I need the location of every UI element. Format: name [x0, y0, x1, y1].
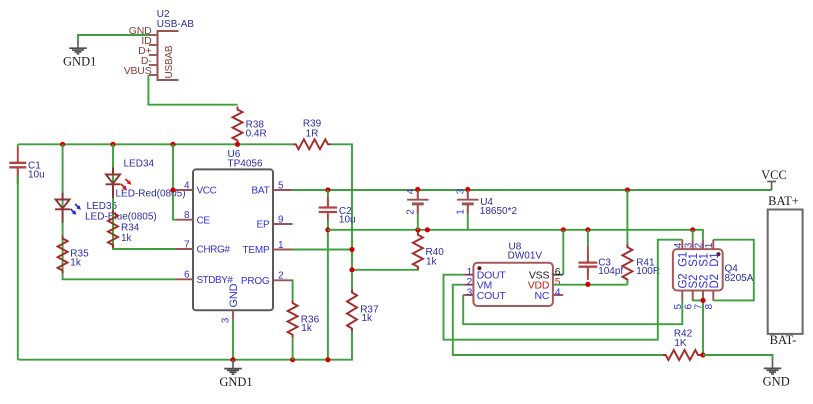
pin 6 STDBY# of U6 [176, 270, 233, 286]
IC U8 DW01V body [473, 263, 553, 306]
svg-text:GND1: GND1 [219, 375, 252, 389]
junction BAT- at C3 [585, 227, 590, 232]
junction at C2 top [325, 187, 330, 192]
junction at LED34 branch [110, 142, 115, 147]
svg-text:2: 2 [278, 271, 284, 282]
svg-text:1R: 1R [306, 129, 319, 140]
junction BAT- at R40/U4 pin2 [415, 227, 420, 232]
junction at U6 VCC pin [170, 187, 175, 192]
junction R40 line at riser [349, 267, 354, 272]
junction BAT- extra [425, 227, 430, 232]
LED LED34 [106, 159, 186, 200]
wire rail to VCC and CE pins [173, 144, 176, 219]
resistor R36 [288, 300, 320, 338]
pin 3 GND of U6 [221, 283, 241, 323]
pin 3 S1 of Q4 [683, 240, 700, 267]
svg-text:3: 3 [221, 317, 232, 323]
junction C2 at BAT- line [325, 227, 330, 232]
wire R42 to GND symbol [703, 355, 773, 360]
pin 4 NC of U8 (unconnected) [535, 287, 564, 302]
junction R42 right [700, 352, 705, 357]
junction BAT- at Q4 pin3 [690, 227, 695, 232]
Q4 reference label [725, 264, 754, 285]
svg-text:TP4056: TP4056 [228, 158, 263, 169]
resistor R42 [663, 329, 701, 360]
svg-text:GND1: GND1 [63, 55, 96, 69]
svg-text:1K: 1K [674, 338, 687, 349]
svg-text:EP: EP [257, 220, 270, 231]
pin VBUS of U2 [124, 65, 158, 77]
svg-text:COUT: COUT [477, 290, 507, 302]
pin 3 COUT of U8 [463, 287, 506, 302]
resistor R38 [233, 107, 267, 144]
junction Q4 S2 [700, 298, 705, 303]
pin 5 G2 of Q4 [673, 274, 690, 310]
svg-text:NC: NC [535, 290, 550, 302]
svg-text:3: 3 [455, 188, 466, 194]
wire R36 bottom to rail [292, 338, 294, 360]
svg-text:1k: 1k [426, 257, 438, 268]
resistor R40 [413, 232, 444, 270]
wire COUT to Q4 G2 [463, 295, 682, 324]
wire BAT- net [328, 230, 703, 240]
svg-text:PROG: PROG [241, 276, 270, 287]
svg-text:8205A: 8205A [725, 273, 754, 284]
transistor Q4 8205A body [673, 249, 723, 290]
svg-text:0.4R: 0.4R [246, 129, 267, 140]
svg-text:1k: 1k [301, 323, 313, 334]
LED LED35 [55, 193, 157, 224]
svg-text:USBAB: USBAB [164, 45, 175, 78]
junction at LED35 branch [60, 142, 65, 147]
capacitor C2 [319, 190, 356, 226]
pin 5 VDD of U8 [528, 276, 561, 291]
junction TEMP riser [349, 247, 354, 252]
wire VDD line [553, 284, 628, 286]
svg-text:4: 4 [405, 188, 416, 194]
junction at U6 VCC branch [170, 142, 175, 147]
wire U4 cell B pin1 to BAT- line [467, 214, 469, 230]
resistor R35 [58, 236, 89, 274]
svg-text:8: 8 [184, 210, 190, 221]
svg-text:10u: 10u [339, 215, 356, 226]
pin 4 VCC of U6 [176, 180, 217, 196]
wire R39 to TEMP riser [331, 144, 352, 289]
U8 reference label [508, 241, 543, 261]
wire VCC top rail [18, 143, 293, 145]
svg-text:5: 5 [278, 180, 284, 191]
svg-text:TEMP: TEMP [243, 245, 271, 256]
ground GND (right) [763, 359, 790, 388]
resistor R34 [108, 210, 140, 248]
wire BAT net (U6 BAT pin to VCC flag) [293, 189, 772, 191]
svg-text:BAT-: BAT- [770, 333, 797, 347]
svg-text:2: 2 [405, 209, 416, 215]
svg-text:GND: GND [228, 283, 240, 307]
battery terminal block BAT+/BAT- [768, 194, 803, 347]
svg-text:CE: CE [197, 215, 211, 226]
wire U4 cell A pin2 to BAT- line [417, 214, 419, 230]
svg-text:7: 7 [184, 239, 190, 250]
svg-text:9: 9 [278, 214, 284, 225]
U2 reference label [157, 9, 195, 30]
resistor R41 [622, 190, 660, 285]
junction VDD at C3 bottom [585, 282, 590, 287]
svg-text:6: 6 [184, 270, 190, 281]
wire VM to R42 [453, 285, 663, 355]
wire C1 to bottom rail [17, 175, 19, 359]
wire GND1 to USB GND pin [78, 35, 149, 43]
capacitor C3 [579, 230, 624, 280]
svg-text:BAT+: BAT+ [768, 194, 799, 208]
svg-text:4: 4 [673, 242, 684, 248]
pin 2 S1 of Q4 [694, 240, 711, 267]
svg-text:100R: 100R [636, 266, 660, 277]
junction at R38 bottom [235, 142, 240, 147]
svg-text:D1: D1 [709, 252, 721, 266]
resistor R37 [347, 290, 379, 332]
pin 4 G1 of Q4 [673, 240, 690, 267]
pin 8 CE of U6 [176, 210, 210, 226]
wire U6 GND pin to bottom rail [232, 320, 234, 360]
pin 8 D2 of Q4 [704, 274, 721, 309]
svg-text:D2: D2 [709, 274, 721, 288]
svg-text:4: 4 [555, 287, 561, 299]
pin D+ of U2 [138, 45, 157, 57]
svg-text:1k: 1k [70, 257, 82, 268]
svg-text:GND: GND [763, 374, 790, 388]
wire LED34 branch [113, 144, 176, 249]
pin 1 DOUT of U8 [463, 266, 506, 281]
svg-text:5: 5 [673, 304, 684, 310]
junction at U4 pin3 [465, 187, 470, 192]
wire TEMP pin to riser [293, 249, 353, 251]
pin 2 VM of U8 [463, 276, 492, 291]
junction rail at R36 [290, 357, 295, 362]
svg-text:VCC: VCC [197, 186, 217, 197]
ground GND1 (upper, at USB) [63, 42, 96, 69]
capacitor C1 [9, 144, 44, 184]
svg-text:R34: R34 [121, 223, 140, 234]
svg-text:DW01V: DW01V [508, 251, 543, 262]
pin 7 S2 of Q4 [694, 275, 711, 310]
resistor R39 [293, 119, 331, 150]
svg-text:1k: 1k [121, 233, 133, 244]
svg-text:1: 1 [278, 240, 284, 251]
pin 6 VSS of U8 [529, 266, 563, 281]
svg-text:8: 8 [704, 304, 715, 310]
junction rail at U6 GND [230, 357, 235, 362]
junction at U4 pin4 [415, 187, 420, 192]
svg-text:LED34: LED34 [124, 159, 155, 170]
pin 1 D1 of Q4 [704, 240, 721, 267]
wire VBUS to R38 [148, 75, 237, 105]
IC U6 TP4056 body [193, 169, 273, 310]
battery U4 cell A pins 4/2 [405, 188, 428, 215]
svg-text:LED-Blue(0805): LED-Blue(0805) [85, 212, 157, 223]
wire C2 bottom to BAT- line and bottom rail [327, 220, 329, 360]
svg-text:USB-AB: USB-AB [157, 19, 195, 30]
pin 7 CHRG# of U6 [176, 239, 230, 255]
battery U4 cell B pins 3/1 [455, 188, 478, 215]
pin D- of U2 [141, 55, 158, 67]
wire R37 bottom to rail [18, 332, 352, 360]
svg-text:4: 4 [184, 180, 190, 191]
svg-text:104pf: 104pf [598, 266, 623, 277]
pin 1 TEMP of U6 [243, 240, 293, 256]
junction BAT- at VSS riser [561, 227, 566, 232]
U4 reference label [480, 197, 518, 217]
ground GND1 (lower) [219, 360, 252, 389]
wire VSS riser to BAT- line [562, 230, 564, 275]
svg-text:10u: 10u [28, 170, 45, 181]
pin 6 S2 of Q4 [683, 275, 700, 310]
junction at R41 top riser [625, 187, 630, 192]
U6 reference label [228, 149, 263, 170]
wire R40 bottom line [352, 267, 418, 270]
pin 5 BAT of U6 [251, 180, 292, 196]
junction rail at C2 riser [325, 357, 330, 362]
power flag VCC [761, 168, 787, 190]
svg-text:CHRG#: CHRG# [197, 245, 231, 256]
wire PROG to R36 [292, 280, 294, 300]
svg-text:VCC: VCC [761, 168, 787, 182]
svg-text:18650*2: 18650*2 [480, 206, 518, 217]
pin 9 EP of U6 (unconnected) [257, 214, 293, 230]
wire Q4 S2 pins join [693, 300, 703, 355]
svg-text:1: 1 [455, 209, 466, 215]
wire Q4 pin3 riser [692, 230, 694, 240]
wire DOUT to Q4 G1 [444, 240, 683, 340]
pin ID of U2 [141, 35, 157, 47]
pin GND of U2 [129, 25, 158, 37]
svg-text:3: 3 [466, 287, 472, 299]
connector U2 USB-AB symbol body [158, 31, 179, 80]
pin 2 PROG of U6 [241, 271, 293, 287]
wire LED35 branch [63, 144, 176, 279]
svg-text:1: 1 [704, 242, 715, 248]
wire Q4 D1 to D2 loop [713, 240, 754, 301]
svg-text:1k: 1k [362, 313, 374, 324]
svg-text:BAT: BAT [251, 186, 269, 197]
